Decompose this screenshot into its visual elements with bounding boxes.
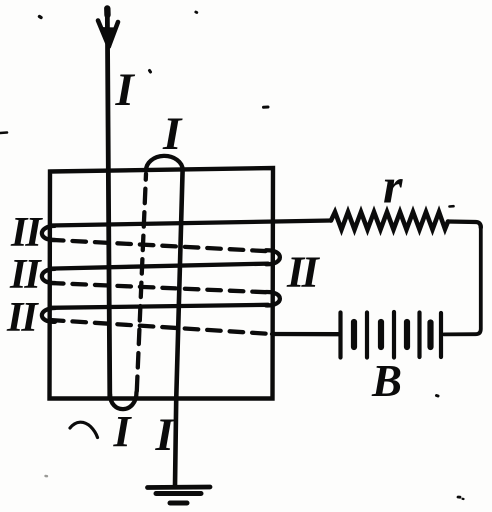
winding II right loop 2 <box>266 292 280 305</box>
winding II turn 3 front wire <box>50 305 268 308</box>
wire resistor to right edge <box>448 222 481 228</box>
winding II left loop 3 <box>42 308 55 322</box>
winding II right loop 1 <box>266 250 280 264</box>
svg-text:I: I <box>162 108 183 160</box>
wire right vertical <box>444 226 481 334</box>
wire I top arc over core edge <box>146 156 183 171</box>
winding II turn 2 front wire <box>50 264 268 269</box>
svg-text:B: B <box>371 356 402 406</box>
winding II turn 1 front wire (to resistor) <box>50 221 331 226</box>
svg-text:I: I <box>155 409 176 461</box>
svg-text:II: II <box>286 248 321 297</box>
svg-text:II: II <box>10 210 43 256</box>
stray squiggle mark <box>70 422 98 437</box>
winding II turn 1 back wire (dashed) <box>50 240 268 251</box>
winding II turn 2 back wire (dashed) <box>50 283 268 292</box>
winding II left loop 2 <box>42 269 55 283</box>
wire core to battery <box>272 332 339 337</box>
resistor r <box>331 212 448 230</box>
svg-text:I: I <box>113 407 133 456</box>
svg-text:II: II <box>9 252 42 298</box>
svg-text:r: r <box>383 158 403 214</box>
wire I descender to ground <box>175 170 183 486</box>
svg-text:I: I <box>115 64 136 116</box>
wire I bottom U-loop under core <box>110 392 137 409</box>
wire I vertical conductor <box>107 8 110 397</box>
svg-text:II: II <box>6 295 39 341</box>
ground <box>148 485 211 490</box>
winding II turn 3 back wire (dashed, to battery) <box>50 320 272 334</box>
winding II left loop 1 <box>42 226 55 240</box>
wire I dashed return (behind core) <box>137 174 146 391</box>
arrowhead on conductor I (pointing down) <box>98 21 109 47</box>
battery B <box>341 312 442 358</box>
core (square iron core outline) <box>50 168 274 399</box>
